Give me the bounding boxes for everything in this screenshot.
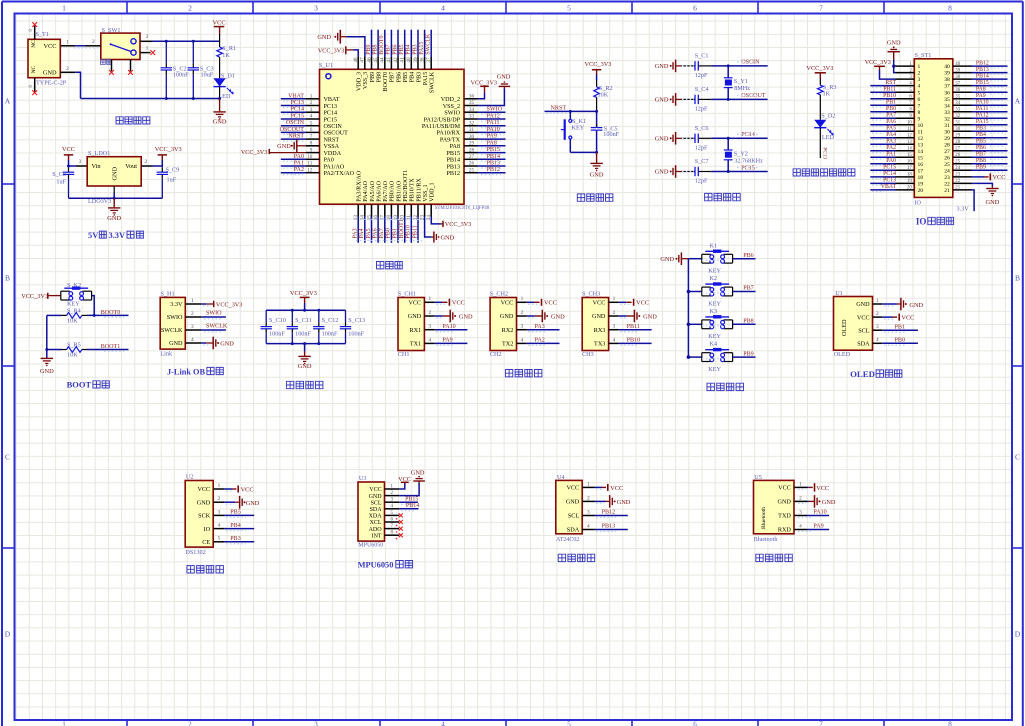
svg-text:RX1: RX1	[409, 327, 421, 334]
svg-text:4: 4	[441, 4, 445, 13]
svg-text:2: 2	[191, 311, 194, 317]
svg-text:PB1/AO: PB1/AO	[396, 180, 402, 202]
svg-text:3: 3	[79, 159, 82, 165]
svg-text:PB9: PB9	[366, 44, 372, 54]
svg-text:1: 1	[918, 64, 921, 70]
svg-text:36: 36	[955, 88, 960, 93]
svg-text:36: 36	[469, 94, 475, 100]
svg-text:GND: GND	[497, 73, 511, 80]
svg-text:35: 35	[469, 100, 475, 106]
svg-text:S_C4: S_C4	[695, 86, 709, 93]
svg-text:LDO3V3: LDO3V3	[88, 198, 111, 205]
svg-text:INT: INT	[372, 533, 382, 539]
svg-text:S_R4: S_R4	[67, 307, 81, 314]
svg-text:PA0: PA0	[886, 158, 896, 164]
svg-text:CH2: CH2	[490, 351, 502, 358]
svg-text:SWCLK: SWCLK	[426, 33, 432, 55]
svg-text:TX2: TX2	[502, 341, 513, 348]
svg-text:26: 26	[944, 155, 950, 161]
svg-text:GND: GND	[655, 63, 669, 70]
svg-text:Vin: Vin	[92, 163, 102, 170]
svg-text:GND: GND	[112, 166, 119, 180]
svg-text:3: 3	[218, 509, 221, 515]
svg-text:3.3V: 3.3V	[170, 301, 183, 308]
svg-text:XCL: XCL	[370, 520, 382, 526]
svg-text:PA10: PA10	[976, 100, 989, 106]
svg-text:34: 34	[944, 103, 950, 109]
svg-text:GND: GND	[985, 199, 999, 206]
svg-text:40: 40	[955, 62, 960, 67]
svg-text:AT24C02: AT24C02	[556, 537, 579, 543]
svg-text:GND: GND	[298, 363, 312, 370]
svg-text:26: 26	[469, 161, 475, 167]
svg-text:PB10/TX: PB10/TX	[410, 178, 416, 202]
svg-text:PB10: PB10	[406, 225, 412, 238]
svg-text:S_C7: S_C7	[695, 158, 709, 165]
svg-text:VCC_3V3: VCC_3V3	[806, 65, 833, 72]
svg-text:VCC: VCC	[197, 486, 210, 493]
svg-text:17: 17	[907, 166, 912, 171]
svg-text:PB7: PB7	[976, 152, 986, 158]
svg-text:TXD: TXD	[778, 513, 791, 520]
svg-text:3: 3	[613, 324, 616, 330]
svg-text:B: B	[1015, 274, 1020, 283]
svg-text:D: D	[1015, 630, 1021, 639]
svg-text:4: 4	[441, 720, 445, 726]
svg-text:1: 1	[613, 296, 616, 302]
svg-text:1: 1	[521, 296, 524, 302]
svg-text:32: 32	[469, 120, 475, 126]
svg-text:PB10: PB10	[627, 338, 641, 344]
svg-text:21: 21	[955, 186, 960, 191]
svg-text:4: 4	[428, 337, 431, 343]
svg-text:PA7: PA7	[886, 113, 896, 119]
svg-text:PB6: PB6	[396, 72, 402, 83]
svg-text:28: 28	[944, 142, 950, 148]
svg-text:7: 7	[918, 103, 921, 109]
svg-text:39: 39	[413, 57, 419, 63]
svg-text:PA6: PA6	[886, 119, 896, 125]
svg-text:PB14: PB14	[487, 154, 501, 160]
svg-text:PB4: PB4	[406, 44, 412, 54]
svg-text:9: 9	[918, 116, 921, 122]
svg-text:OSCOUT: OSCOUT	[280, 127, 305, 133]
svg-text:GND: GND	[277, 143, 291, 150]
svg-text:GND: GND	[220, 340, 234, 347]
svg-text:PA8: PA8	[487, 140, 497, 146]
svg-text:GND: GND	[317, 34, 331, 41]
svg-text:GND: GND	[909, 302, 923, 309]
svg-text:PA9: PA9	[976, 93, 986, 99]
svg-text:TX1: TX1	[410, 341, 421, 348]
svg-text:PB14: PB14	[406, 503, 419, 509]
svg-text:PA1: PA1	[294, 161, 304, 167]
svg-text:VCC: VCC	[593, 300, 606, 307]
svg-text:BOOT0: BOOT0	[101, 310, 121, 316]
svg-text:PB10: PB10	[883, 93, 896, 99]
svg-text:VCC: VCC	[901, 314, 914, 321]
svg-text:GND: GND	[617, 499, 631, 506]
svg-text:4: 4	[876, 337, 879, 343]
svg-text:GND: GND	[369, 494, 383, 500]
svg-text:4: 4	[218, 523, 221, 529]
svg-text:30: 30	[944, 129, 950, 135]
svg-text:S_C1: S_C1	[695, 52, 709, 59]
svg-text:VDD_3: VDD_3	[357, 72, 363, 91]
svg-text:GND: GND	[213, 118, 227, 125]
svg-text:2: 2	[188, 4, 192, 13]
svg-text:VCC_3V3: VCC_3V3	[290, 290, 317, 297]
svg-text:GND: GND	[655, 97, 669, 104]
svg-text:10uF: 10uF	[201, 72, 214, 79]
svg-text:GND: GND	[197, 499, 211, 506]
svg-text:23: 23	[955, 173, 960, 178]
svg-text:38: 38	[419, 57, 425, 63]
svg-text:PB13: PB13	[446, 164, 460, 170]
svg-text:VSSA: VSSA	[324, 144, 340, 150]
svg-text:11: 11	[918, 129, 924, 135]
svg-text:MPU6050: MPU6050	[358, 560, 394, 569]
svg-text:CH3: CH3	[582, 351, 594, 358]
svg-text:2: 2	[799, 495, 802, 501]
svg-text:VCC: VCC	[501, 300, 514, 307]
svg-text:2: 2	[144, 159, 147, 165]
svg-text:PB9: PB9	[743, 351, 754, 357]
svg-text:27: 27	[944, 149, 950, 155]
svg-text:KEY: KEY	[708, 366, 721, 373]
svg-text:PA3: PA3	[535, 324, 545, 330]
svg-text:36: 36	[944, 90, 950, 96]
svg-text:Bluetooth: Bluetooth	[761, 507, 767, 529]
svg-text:GND: GND	[107, 215, 121, 222]
svg-text:PC15: PC15	[883, 165, 896, 171]
svg-text:2: 2	[521, 310, 524, 316]
svg-text:29: 29	[944, 136, 950, 142]
svg-text:18: 18	[918, 175, 924, 181]
svg-text:3.3V: 3.3V	[109, 231, 126, 240]
svg-text:3: 3	[587, 509, 590, 515]
svg-text:PB7: PB7	[390, 72, 396, 83]
svg-text:24: 24	[955, 166, 960, 171]
svg-text:PB5: PB5	[399, 44, 405, 54]
svg-text:PA10: PA10	[813, 510, 826, 516]
svg-text:15: 15	[907, 153, 912, 158]
svg-text:PA2: PA2	[886, 145, 896, 151]
svg-text:PA9: PA9	[487, 134, 497, 140]
svg-text:VCC_3V3: VCC_3V3	[155, 146, 182, 153]
svg-text:5: 5	[918, 90, 921, 96]
svg-text:GND: GND	[43, 70, 57, 77]
svg-text:PA10: PA10	[487, 127, 500, 133]
svg-text:39: 39	[955, 68, 960, 73]
svg-text:4: 4	[799, 523, 802, 529]
svg-text:SCK: SCK	[198, 513, 211, 520]
svg-text:PB14: PB14	[976, 73, 989, 79]
svg-text:8MHz: 8MHz	[734, 85, 750, 92]
svg-text:VCC: VCC	[566, 485, 579, 492]
svg-text:31: 31	[469, 127, 475, 133]
svg-text:33: 33	[955, 107, 960, 112]
svg-text:PB8: PB8	[743, 319, 754, 325]
svg-text:PB8: PB8	[372, 44, 378, 54]
svg-text:PA10/RX: PA10/RX	[437, 131, 461, 137]
svg-text:26: 26	[955, 153, 960, 158]
svg-text:KEY: KEY	[572, 124, 585, 131]
svg-text:PB6: PB6	[743, 253, 754, 259]
svg-text:9: 9	[310, 147, 313, 153]
svg-text:VCC: VCC	[636, 300, 649, 307]
svg-text:SWCLK: SWCLK	[161, 327, 183, 334]
svg-text:PA15: PA15	[976, 119, 989, 125]
svg-text:4: 4	[521, 337, 524, 343]
svg-text:1: 1	[146, 46, 149, 52]
svg-text:VCC: VCC	[241, 486, 254, 493]
svg-text:3: 3	[521, 324, 524, 330]
svg-text:5: 5	[310, 120, 313, 126]
svg-text:6: 6	[693, 720, 697, 726]
svg-text:PB11: PB11	[883, 87, 896, 93]
svg-text:PA7/AO: PA7/AO	[383, 180, 389, 201]
svg-text:S_C11: S_C11	[295, 317, 312, 324]
svg-text:10: 10	[918, 123, 924, 129]
svg-text:30: 30	[469, 134, 475, 140]
svg-text:VSS_3: VSS_3	[363, 72, 369, 89]
svg-text:GND: GND	[887, 40, 901, 47]
svg-text:S_Y1: S_Y1	[734, 78, 748, 85]
svg-text:3: 3	[314, 720, 318, 726]
svg-text:K3: K3	[710, 308, 718, 315]
svg-text:VCC: VCC	[62, 146, 75, 153]
svg-text:PA4: PA4	[886, 132, 896, 138]
svg-text:GND: GND	[441, 234, 455, 241]
svg-text:PA3/RX/AO: PA3/RX/AO	[357, 170, 363, 202]
svg-text:13: 13	[907, 140, 912, 145]
svg-text:12: 12	[307, 167, 313, 173]
svg-text:100nF: 100nF	[603, 131, 619, 138]
svg-text:8: 8	[948, 4, 952, 13]
svg-text:35: 35	[944, 97, 950, 103]
svg-text:VCC_3V3: VCC_3V3	[445, 221, 471, 228]
svg-text:10K: 10K	[67, 352, 78, 359]
svg-text:1: 1	[310, 94, 313, 100]
svg-text:4: 4	[191, 337, 194, 343]
svg-text:GND: GND	[655, 169, 669, 176]
svg-text:PB3: PB3	[412, 44, 418, 54]
svg-text:1: 1	[428, 296, 431, 302]
svg-text:PA8: PA8	[976, 87, 986, 93]
svg-text:19: 19	[907, 179, 912, 184]
svg-text:GND: GND	[660, 256, 674, 263]
svg-text:IO: IO	[915, 200, 922, 207]
svg-text:PA12/USB/DP: PA12/USB/DP	[424, 117, 461, 123]
svg-text:24: 24	[944, 168, 950, 174]
svg-text:VCC: VCC	[213, 20, 226, 27]
svg-text:Vout: Vout	[125, 163, 137, 170]
svg-text:GND: GND	[655, 136, 669, 143]
svg-text:2: 2	[310, 100, 313, 106]
svg-text:VCC: VCC	[544, 300, 557, 307]
svg-text:A: A	[5, 97, 11, 106]
svg-text:10K: 10K	[67, 318, 78, 325]
svg-text:37: 37	[426, 57, 432, 63]
svg-text:A: A	[1015, 97, 1021, 106]
svg-text:1: 1	[587, 481, 590, 487]
svg-text:S_H1: S_H1	[161, 290, 175, 297]
svg-text:S_CH1: S_CH1	[398, 291, 416, 298]
svg-text:39: 39	[944, 71, 950, 77]
svg-text:PB7: PB7	[386, 44, 392, 54]
svg-text:4: 4	[587, 523, 590, 529]
svg-text:38: 38	[955, 75, 960, 80]
svg-text:3.3V: 3.3V	[957, 206, 970, 213]
svg-text:VCC: VCC	[369, 487, 381, 493]
svg-text:2: 2	[876, 311, 879, 317]
svg-text:11: 11	[307, 161, 312, 167]
svg-text:34: 34	[469, 107, 475, 113]
svg-text:BOOT0: BOOT0	[383, 72, 389, 92]
svg-text:KEY: KEY	[708, 333, 721, 340]
svg-text:PA15: PA15	[419, 42, 425, 55]
svg-text:SCL: SCL	[568, 513, 580, 520]
svg-text:VCC_3V3: VCC_3V3	[241, 149, 267, 156]
svg-text:PB0: PB0	[386, 228, 392, 238]
svg-text:100nF: 100nF	[322, 330, 338, 337]
svg-text:PB5: PB5	[230, 510, 241, 516]
svg-text:45: 45	[373, 57, 379, 63]
svg-text:GND: GND	[40, 368, 54, 375]
svg-text:PA3: PA3	[886, 139, 896, 145]
svg-text:37: 37	[944, 84, 950, 90]
svg-text:25: 25	[469, 167, 475, 173]
svg-text:RST: RST	[885, 80, 896, 86]
svg-text:S_U1: S_U1	[319, 62, 333, 69]
svg-text:1: 1	[62, 720, 66, 726]
svg-text:PB3: PB3	[416, 72, 422, 83]
svg-text:VCC_3V3: VCC_3V3	[585, 61, 612, 68]
svg-text:3: 3	[876, 324, 879, 330]
svg-text:PB3: PB3	[230, 536, 241, 542]
svg-text:47: 47	[360, 57, 366, 63]
svg-text:TX3: TX3	[594, 341, 605, 348]
svg-text:PA4/AO: PA4/AO	[363, 180, 369, 201]
svg-text:PA11: PA11	[976, 106, 989, 112]
svg-text:GND: GND	[856, 301, 870, 308]
svg-text:PA9: PA9	[442, 338, 452, 344]
svg-text:14: 14	[907, 147, 912, 152]
svg-text:27: 27	[955, 147, 960, 152]
svg-text:16: 16	[907, 160, 912, 165]
svg-text:4: 4	[310, 114, 313, 120]
svg-text:LED: LED	[822, 134, 835, 141]
svg-text:1K: 1K	[823, 90, 831, 97]
svg-text:U5: U5	[754, 474, 762, 481]
svg-text:12pF: 12pF	[695, 72, 708, 79]
svg-text:PB4: PB4	[976, 132, 986, 138]
svg-text:K4: K4	[710, 341, 718, 348]
svg-text:PB1: PB1	[895, 324, 906, 330]
svg-text:J-Link OB: J-Link OB	[167, 367, 206, 376]
svg-text:44: 44	[380, 57, 386, 63]
svg-text:6: 6	[693, 4, 697, 13]
svg-text:VBAT: VBAT	[324, 97, 340, 103]
svg-text:SWIO: SWIO	[206, 311, 222, 317]
svg-text:Bluetooth: Bluetooth	[754, 537, 778, 543]
svg-text:NRST: NRST	[288, 134, 304, 140]
svg-text:PB0: PB0	[886, 106, 896, 112]
svg-text:18: 18	[907, 173, 912, 178]
svg-text:PB11/RX: PB11/RX	[416, 178, 422, 202]
svg-text:RX2: RX2	[502, 327, 514, 334]
svg-text:100nF: 100nF	[295, 330, 311, 337]
svg-text:S_C9: S_C9	[166, 166, 180, 173]
svg-text:PB1: PB1	[392, 228, 398, 238]
svg-text:S_Y2: S_Y2	[734, 151, 748, 158]
svg-text:STM32F103C8T6_LQFP48: STM32F103C8T6_LQFP48	[435, 206, 490, 211]
svg-text:28: 28	[955, 140, 960, 145]
svg-text:CE: CE	[202, 539, 210, 546]
svg-text:XDA: XDA	[369, 514, 383, 520]
svg-text:PB2/BOOT1: PB2/BOOT1	[403, 170, 409, 202]
svg-text:100nF: 100nF	[173, 72, 189, 79]
svg-text:34: 34	[955, 101, 960, 106]
svg-text:GND: GND	[822, 499, 836, 506]
svg-text:VCC: VCC	[778, 485, 791, 492]
svg-text:PA9: PA9	[813, 524, 823, 530]
svg-text:12pF: 12pF	[695, 105, 708, 112]
svg-text:U4: U4	[557, 474, 565, 481]
svg-text:PA5/AO: PA5/AO	[370, 180, 376, 201]
svg-text:43: 43	[386, 57, 392, 63]
svg-text:32.768KHz: 32.768KHz	[734, 158, 763, 165]
svg-text:S_T1: S_T1	[36, 31, 49, 38]
svg-text:25: 25	[944, 162, 950, 168]
svg-text:OSCOUT: OSCOUT	[741, 93, 766, 99]
svg-text:PA3: PA3	[353, 228, 359, 238]
svg-text:OSCIN: OSCIN	[286, 120, 305, 126]
svg-text:S_LDO1: S_LDO1	[88, 150, 110, 157]
svg-text:IO: IO	[916, 216, 927, 226]
svg-text:KEY: KEY	[708, 268, 721, 275]
svg-text:GND: GND	[169, 340, 183, 347]
svg-text:PB4: PB4	[410, 72, 416, 83]
svg-text:VBAT: VBAT	[288, 93, 304, 99]
svg-text:PC14: PC14	[883, 171, 896, 177]
svg-text:S_D1: S_D1	[221, 72, 235, 79]
svg-text:PB12: PB12	[602, 510, 616, 516]
svg-text:OSCIN: OSCIN	[741, 60, 760, 66]
svg-text:PC14: PC14	[324, 111, 338, 117]
svg-text:S_C6: S_C6	[695, 125, 709, 132]
svg-text:RX3: RX3	[594, 327, 606, 334]
svg-text:10: 10	[307, 154, 313, 160]
svg-text:2: 2	[66, 66, 69, 72]
svg-text:PC14: PC14	[741, 132, 755, 138]
svg-text:6: 6	[918, 97, 921, 103]
svg-text:3: 3	[146, 34, 149, 40]
svg-text:1: 1	[62, 4, 66, 13]
svg-text:PB6: PB6	[976, 145, 986, 151]
svg-text:SDA: SDA	[857, 341, 870, 348]
svg-text:37: 37	[955, 81, 960, 86]
svg-text:S_C12: S_C12	[322, 317, 339, 324]
svg-text:GND: GND	[411, 469, 425, 476]
svg-text:PB0: PB0	[895, 338, 906, 344]
svg-text:VCC: VCC	[857, 314, 870, 321]
svg-text:PB15: PB15	[487, 147, 501, 153]
svg-text:U2: U2	[186, 474, 194, 481]
svg-text:PC15: PC15	[741, 165, 755, 171]
svg-text:NRST: NRST	[324, 137, 340, 143]
